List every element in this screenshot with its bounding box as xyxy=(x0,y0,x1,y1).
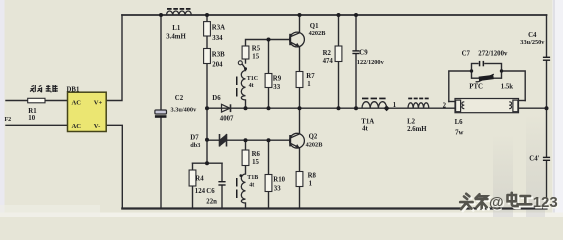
svg-text:Q2: Q2 xyxy=(309,134,318,141)
svg-text:2: 2 xyxy=(443,103,447,110)
svg-text:33: 33 xyxy=(274,186,281,193)
svg-text:C9: C9 xyxy=(359,50,368,57)
svg-text:33u/250v: 33u/250v xyxy=(520,39,545,46)
svg-text:D7: D7 xyxy=(190,134,199,141)
svg-text:V+: V+ xyxy=(94,100,103,107)
svg-text:T1A: T1A xyxy=(361,119,374,126)
svg-text:1: 1 xyxy=(309,180,313,187)
svg-text:272/1200v: 272/1200v xyxy=(478,51,508,58)
svg-text:33: 33 xyxy=(273,84,280,91)
svg-text:7w: 7w xyxy=(455,130,463,137)
svg-text:15: 15 xyxy=(252,53,259,60)
svg-text:C7: C7 xyxy=(462,51,471,58)
svg-text:T1C: T1C xyxy=(247,76,258,82)
svg-text:DB1: DB1 xyxy=(67,86,80,93)
svg-text:R3A: R3A xyxy=(212,24,225,31)
svg-text:C4: C4 xyxy=(528,32,537,39)
svg-text:@: @ xyxy=(489,194,504,211)
svg-text:L6: L6 xyxy=(455,119,464,126)
svg-text:124: 124 xyxy=(195,188,206,195)
svg-text:R5: R5 xyxy=(252,46,261,53)
svg-text:1.5k: 1.5k xyxy=(501,84,513,91)
svg-text:474: 474 xyxy=(323,58,334,65)
svg-text:db3: db3 xyxy=(190,142,200,149)
svg-text:L1: L1 xyxy=(172,25,181,32)
svg-text:1: 1 xyxy=(307,81,311,88)
svg-text:D6: D6 xyxy=(212,95,221,102)
svg-text:C4': C4' xyxy=(529,156,539,163)
svg-text:R2: R2 xyxy=(323,50,332,57)
svg-text:4202B: 4202B xyxy=(309,30,327,37)
svg-text:4t: 4t xyxy=(362,126,368,133)
svg-text:L2: L2 xyxy=(407,119,416,126)
svg-text:R6: R6 xyxy=(252,151,261,158)
svg-text:4007: 4007 xyxy=(220,116,234,123)
svg-text:R3B: R3B xyxy=(212,52,225,59)
svg-text:15: 15 xyxy=(252,159,259,166)
svg-text:R8: R8 xyxy=(308,173,317,180)
svg-text:10: 10 xyxy=(28,115,35,122)
svg-text:4t: 4t xyxy=(249,182,254,188)
svg-text:R10: R10 xyxy=(273,177,285,184)
svg-text:123: 123 xyxy=(533,194,558,211)
svg-text:PTC: PTC xyxy=(469,84,483,91)
svg-text:122/1200v: 122/1200v xyxy=(357,59,385,66)
svg-text:2.6mH: 2.6mH xyxy=(407,126,427,133)
svg-text:F2: F2 xyxy=(5,117,12,123)
svg-text:1: 1 xyxy=(393,102,397,109)
svg-text:4t: 4t xyxy=(249,83,254,89)
svg-text:22n: 22n xyxy=(206,199,217,206)
svg-text:4202B: 4202B xyxy=(306,141,324,148)
svg-text:C6: C6 xyxy=(206,188,215,195)
svg-text:R7: R7 xyxy=(306,73,315,80)
svg-text:V-: V- xyxy=(94,123,100,130)
svg-text:3.4mH: 3.4mH xyxy=(166,34,186,41)
svg-text:R4: R4 xyxy=(195,176,204,183)
svg-text:T1B: T1B xyxy=(247,175,258,181)
svg-text:3.3u/400v: 3.3u/400v xyxy=(171,107,198,114)
svg-text:204: 204 xyxy=(212,61,223,68)
svg-text:R9: R9 xyxy=(273,76,282,83)
svg-text:AC: AC xyxy=(72,123,82,130)
svg-text:AC: AC xyxy=(72,100,82,107)
svg-text:C2: C2 xyxy=(175,95,184,102)
svg-text:334: 334 xyxy=(212,35,223,42)
svg-text:Q1: Q1 xyxy=(310,23,319,30)
